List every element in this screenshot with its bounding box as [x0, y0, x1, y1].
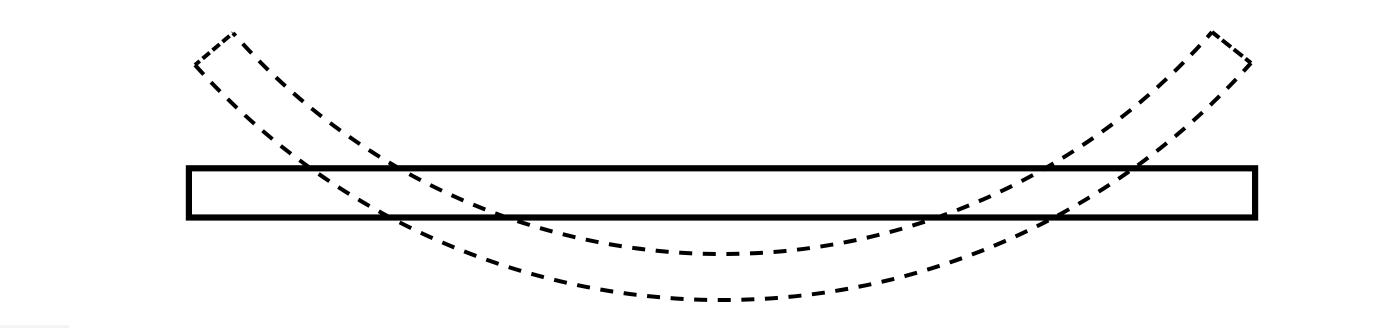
left end cap (dashed): [195, 33, 233, 65]
curved strip outer (lower) dashed arc: [195, 63, 1251, 300]
right end cap (dashed): [1212, 32, 1251, 63]
flat plate (solid rectangle): [189, 168, 1255, 217]
curved strip inner (upper) dashed arc: [233, 32, 1212, 254]
bottom-left scrollbar remnant: [0, 325, 69, 328]
